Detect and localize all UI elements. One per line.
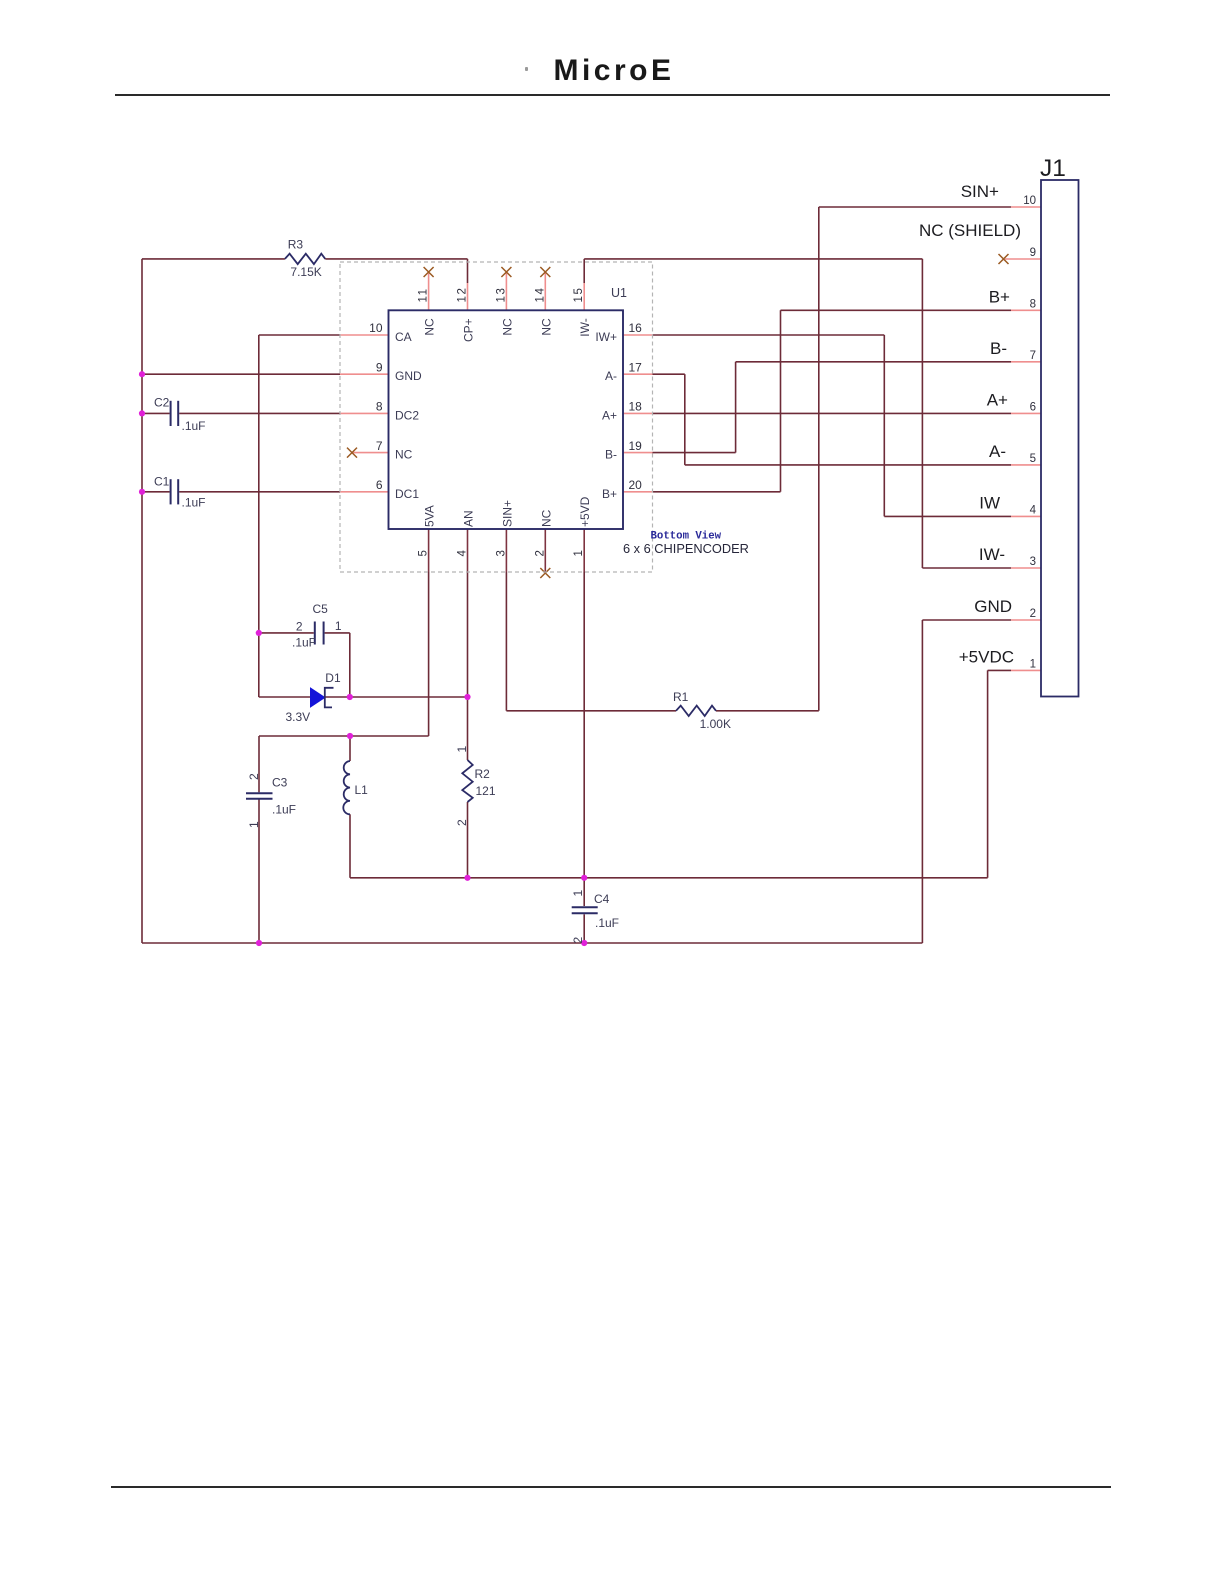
- svg-text:3: 3: [495, 550, 507, 556]
- svg-text:2: 2: [296, 620, 303, 634]
- svg-text:2: 2: [534, 550, 546, 556]
- svg-text:.1uF: .1uF: [272, 803, 296, 817]
- svg-text:.1uF: .1uF: [182, 496, 206, 510]
- svg-text:9: 9: [1030, 247, 1036, 259]
- svg-text:IW+: IW+: [595, 330, 617, 344]
- svg-text:2: 2: [1030, 608, 1036, 620]
- svg-text:7.15K: 7.15K: [290, 265, 321, 279]
- svg-text:C3: C3: [272, 776, 288, 790]
- svg-text:DC1: DC1: [395, 487, 419, 501]
- svg-text:6 x 6 CHIPENCODER: 6 x 6 CHIPENCODER: [623, 541, 749, 556]
- svg-text:A-: A-: [989, 442, 1006, 461]
- svg-text:1: 1: [455, 746, 469, 753]
- svg-text:CA: CA: [395, 330, 412, 344]
- svg-text:14: 14: [534, 287, 546, 303]
- svg-text:C1: C1: [154, 475, 170, 489]
- svg-text:IW-: IW-: [979, 545, 1005, 564]
- svg-text:8: 8: [1030, 298, 1036, 310]
- svg-text:R1: R1: [673, 690, 689, 704]
- svg-text:5VA: 5VA: [423, 505, 437, 527]
- svg-text:11: 11: [418, 287, 430, 302]
- svg-text:1: 1: [247, 821, 261, 828]
- svg-text:NC (SHIELD): NC (SHIELD): [919, 221, 1021, 240]
- svg-text:CP+: CP+: [462, 318, 476, 342]
- svg-text:GND: GND: [395, 369, 422, 383]
- svg-text:3.3V: 3.3V: [286, 710, 311, 724]
- svg-text:NC: NC: [539, 509, 553, 527]
- svg-text:+5VD: +5VD: [578, 496, 592, 527]
- svg-text:2: 2: [571, 937, 585, 944]
- svg-text:IW-: IW-: [578, 318, 592, 336]
- svg-text:1.00K: 1.00K: [700, 717, 731, 731]
- svg-text:6: 6: [1030, 401, 1036, 413]
- svg-text:L1: L1: [355, 783, 369, 797]
- svg-text:B-: B-: [990, 339, 1007, 358]
- svg-text:+5VDC: +5VDC: [959, 647, 1014, 666]
- svg-text:13: 13: [495, 287, 507, 303]
- svg-text:3: 3: [1030, 556, 1036, 568]
- svg-text:NC: NC: [500, 318, 514, 336]
- svg-text:R3: R3: [288, 238, 304, 252]
- svg-text:C5: C5: [313, 602, 329, 616]
- svg-text:A+: A+: [602, 408, 617, 422]
- svg-text:1: 1: [335, 619, 342, 633]
- svg-text:B+: B+: [989, 287, 1010, 306]
- svg-text:GND: GND: [974, 597, 1012, 616]
- svg-text:1: 1: [573, 550, 585, 556]
- svg-text:1: 1: [1030, 658, 1036, 670]
- svg-text:AN: AN: [462, 510, 476, 527]
- svg-text:10: 10: [1023, 195, 1036, 207]
- svg-text:16: 16: [629, 321, 643, 335]
- svg-text:B+: B+: [602, 487, 617, 501]
- svg-text:.1uF: .1uF: [292, 636, 316, 650]
- svg-text:8: 8: [376, 400, 383, 414]
- svg-text:U1: U1: [611, 286, 627, 300]
- svg-text:A+: A+: [987, 390, 1008, 409]
- svg-text:A-: A-: [605, 369, 617, 383]
- svg-text:19: 19: [629, 439, 643, 453]
- svg-text:NC: NC: [423, 318, 437, 336]
- svg-text:9: 9: [376, 360, 383, 374]
- svg-text:17: 17: [629, 360, 643, 374]
- svg-text:NC: NC: [539, 318, 553, 336]
- svg-text:6: 6: [376, 478, 383, 492]
- svg-text:1: 1: [571, 890, 585, 897]
- svg-text:C2: C2: [154, 396, 170, 410]
- svg-text:SIN+: SIN+: [500, 500, 514, 527]
- svg-text:7: 7: [376, 439, 383, 453]
- svg-text:2: 2: [455, 819, 469, 826]
- svg-text:B-: B-: [605, 448, 617, 462]
- svg-text:.1uF: .1uF: [595, 916, 619, 930]
- svg-text:5: 5: [1030, 453, 1036, 465]
- svg-text:20: 20: [629, 478, 643, 492]
- svg-text:SIN+: SIN+: [961, 182, 999, 201]
- svg-text:12: 12: [457, 287, 469, 303]
- svg-text:15: 15: [573, 287, 585, 303]
- svg-text:DC2: DC2: [395, 408, 419, 422]
- svg-text:D1: D1: [325, 671, 341, 685]
- svg-text:J1: J1: [1040, 155, 1066, 182]
- svg-text:5: 5: [418, 550, 430, 556]
- svg-text:4: 4: [457, 550, 469, 557]
- svg-text:NC: NC: [395, 448, 413, 462]
- svg-text:R2: R2: [475, 767, 491, 781]
- svg-text:.1uF: .1uF: [182, 419, 206, 433]
- svg-text:4: 4: [1030, 504, 1037, 516]
- svg-text:C4: C4: [594, 892, 610, 906]
- svg-text:18: 18: [629, 400, 643, 414]
- svg-text:IW: IW: [979, 493, 1000, 512]
- svg-text:2: 2: [247, 773, 261, 780]
- svg-text:7: 7: [1030, 350, 1036, 362]
- svg-text:121: 121: [476, 784, 496, 798]
- svg-text:10: 10: [369, 321, 383, 335]
